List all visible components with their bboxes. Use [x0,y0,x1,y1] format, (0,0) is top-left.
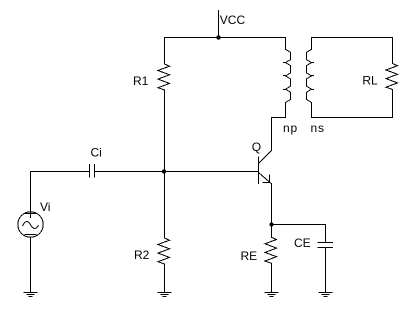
wire base node down to R2 [164,172,166,239]
inductor secondary winding ns [307,49,314,102]
resistor RE [265,237,277,263]
wire RE bottom lead [271,263,273,292]
wire VCC stub [218,11,220,38]
capacitor Ci [90,165,95,178]
wire R2 bottom lead [164,264,166,293]
resistor RL [386,64,398,90]
wire secondary top lead [311,38,313,50]
wire R1 top lead [164,38,166,65]
ground under Vi [24,293,37,297]
svg-text:CE: CE [294,236,311,250]
wire input node to Ci [31,171,90,173]
ground under R2 [158,293,171,297]
resistor R2 [158,238,170,264]
wire secondary top rail [312,37,393,39]
inductor primary winding np [284,49,291,102]
svg-text:Q: Q [252,140,261,154]
ground under CE [319,293,332,297]
node junction dot at base node [162,169,166,173]
wire emitter lead [271,184,273,225]
capacitor CE [318,243,333,248]
source Vi [18,212,43,237]
node junction dot at emitter node [269,222,273,226]
wire Vi bottom lead [30,238,32,293]
wire CE bottom lead [325,248,327,293]
wire RL bottom lead [392,90,394,118]
wire emitter node to CE [272,224,326,226]
wire emitter node to RE [271,225,273,238]
ground under RE [265,293,278,297]
wire primary to collector [272,117,286,119]
wire secondary bottom rail [312,117,393,119]
transistor Q [259,151,272,184]
wire R1 bottom to base node [164,90,166,172]
svg-text:RL: RL [362,74,378,88]
wire primary top lead [285,38,287,50]
svg-text:Ci: Ci [91,146,102,160]
wire collector lead [271,118,273,151]
svg-text:np: np [283,121,298,135]
wire primary bottom lead [285,103,287,118]
wire VCC rail [165,37,286,39]
wire Vi top lead [30,172,32,218]
wire CE top lead [325,225,327,243]
wire secondary bottom lead [311,103,313,118]
node junction dot on VCC rail [216,35,220,39]
svg-text:Vi: Vi [40,200,50,214]
svg-text:R2: R2 [134,248,150,262]
wire Ci to transistor base [95,171,259,173]
svg-text:R1: R1 [133,74,149,88]
resistor R1 [158,64,170,90]
svg-text:ns: ns [311,121,325,135]
svg-text:VCC: VCC [220,13,246,27]
svg-text:RE: RE [241,249,258,263]
wire RL top lead [392,38,394,64]
